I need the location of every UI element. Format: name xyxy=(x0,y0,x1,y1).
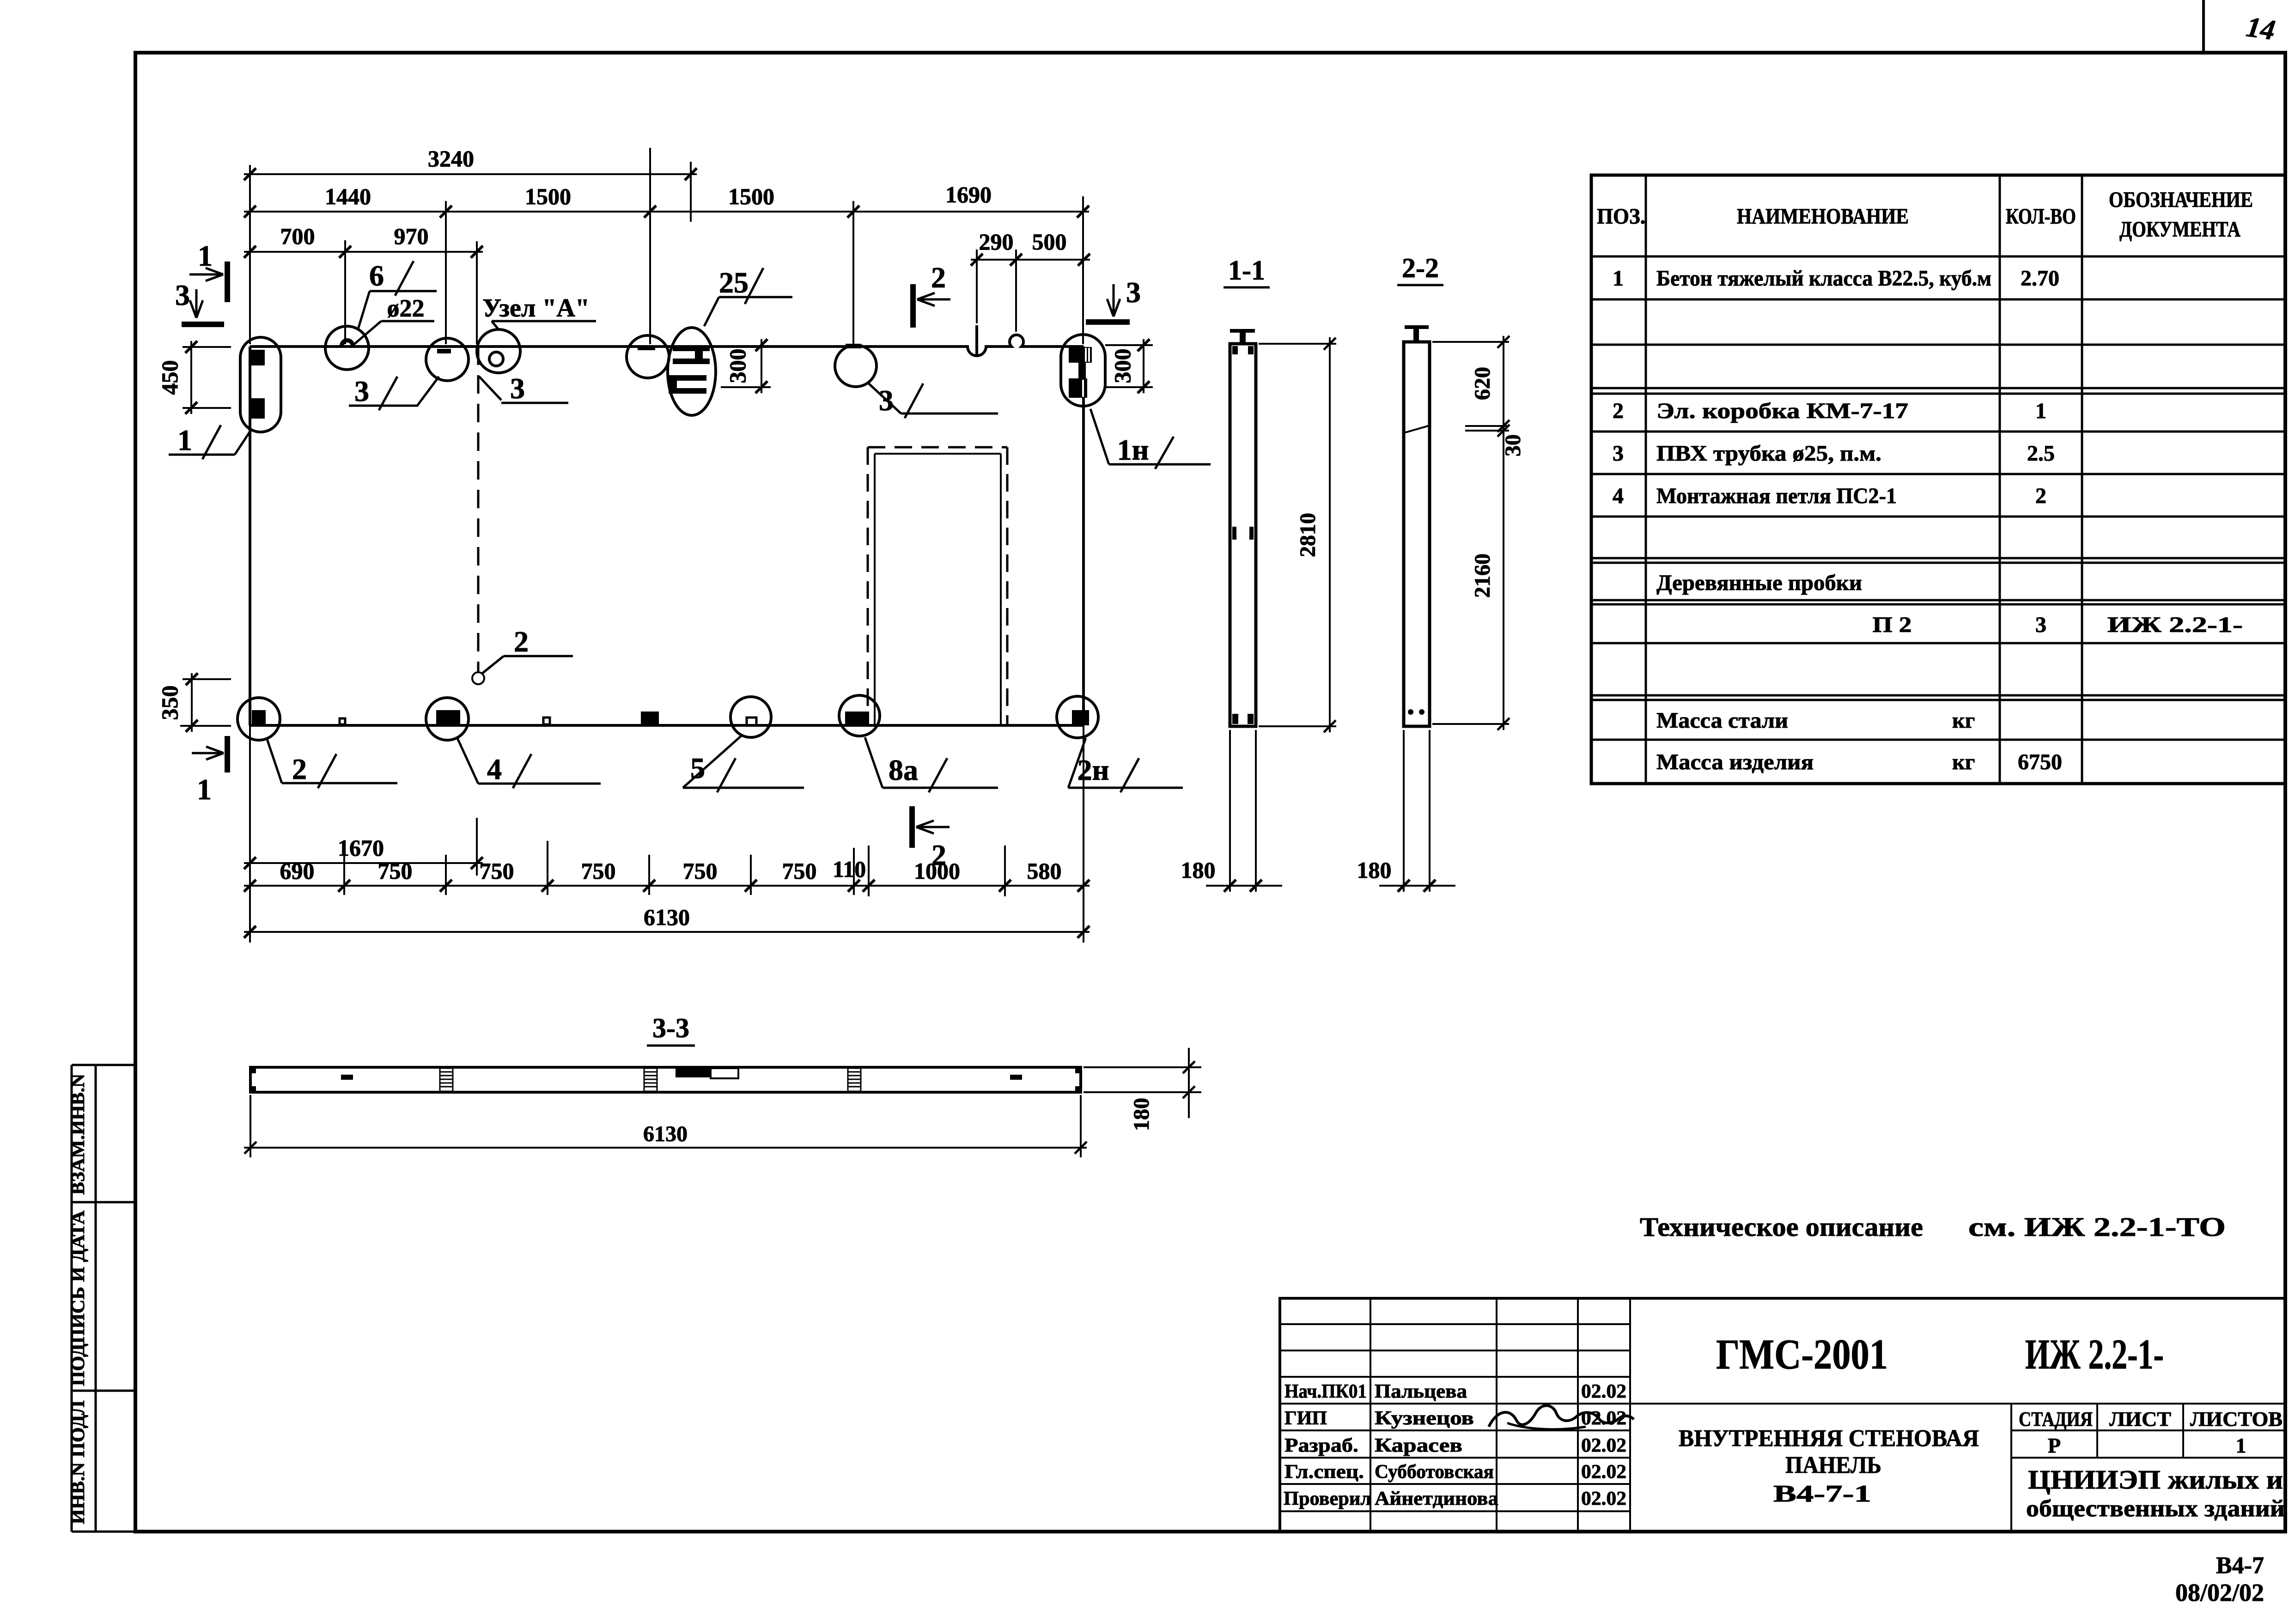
svg-text:3: 3 xyxy=(354,375,369,408)
svg-text:Проверил: Проверил xyxy=(1284,1488,1371,1509)
svg-text:3: 3 xyxy=(1613,441,1624,466)
svg-text:1: 1 xyxy=(197,773,212,806)
svg-text:1690: 1690 xyxy=(945,182,992,207)
svg-text:Айнетдинова: Айнетдинова xyxy=(1375,1488,1498,1509)
svg-text:2160: 2160 xyxy=(1470,553,1495,598)
svg-text:750: 750 xyxy=(683,858,718,884)
svg-text:970: 970 xyxy=(394,223,429,249)
svg-text:Масса изделия: Масса изделия xyxy=(1656,750,1814,774)
svg-text:В4-7-1: В4-7-1 xyxy=(1773,1481,1871,1507)
svg-text:3240: 3240 xyxy=(428,146,474,171)
svg-text:750: 750 xyxy=(782,858,817,884)
svg-text:Узел "А": Узел "А" xyxy=(482,294,590,322)
svg-text:6130: 6130 xyxy=(644,904,690,930)
svg-text:1500: 1500 xyxy=(525,183,571,209)
svg-text:180: 180 xyxy=(1181,857,1216,883)
svg-text:ДОКУМЕНТА: ДОКУМЕНТА xyxy=(2119,217,2240,242)
svg-text:5: 5 xyxy=(690,752,705,785)
svg-text:8а: 8а xyxy=(889,754,918,786)
svg-text:ВЗАМ.ИНВ.N: ВЗАМ.ИНВ.N xyxy=(67,1074,88,1195)
svg-text:ЦНИИЭП жилых и: ЦНИИЭП жилых и xyxy=(2028,1465,2283,1495)
svg-text:1670: 1670 xyxy=(338,835,384,861)
svg-text:КОЛ-ВО: КОЛ-ВО xyxy=(2006,204,2076,229)
svg-text:Разраб.: Разраб. xyxy=(1284,1435,1358,1456)
svg-text:2-2: 2-2 xyxy=(1402,253,1439,283)
svg-text:1: 1 xyxy=(2236,1434,2246,1457)
svg-text:110: 110 xyxy=(833,856,866,882)
svg-text:ЛИСТ: ЛИСТ xyxy=(2109,1408,2171,1430)
svg-text:580: 580 xyxy=(1027,858,1062,884)
svg-text:500: 500 xyxy=(1032,229,1067,255)
svg-text:2: 2 xyxy=(931,839,946,871)
svg-text:690: 690 xyxy=(280,858,315,884)
svg-text:ИЖ 2.2-1-: ИЖ 2.2-1- xyxy=(2107,613,2243,637)
svg-text:6750: 6750 xyxy=(2018,750,2062,774)
svg-text:Субботовская: Субботовская xyxy=(1375,1461,1494,1483)
svg-text:Эл. коробка КМ-7-17: Эл. коробка КМ-7-17 xyxy=(1656,399,1908,423)
svg-text:ИЖ 2.2-1-: ИЖ 2.2-1- xyxy=(2025,1331,2164,1378)
svg-text:02.02: 02.02 xyxy=(1581,1488,1626,1509)
svg-text:14: 14 xyxy=(2244,11,2277,46)
svg-text:02.02: 02.02 xyxy=(1581,1461,1626,1483)
svg-text:Техническое описание: Техническое описание xyxy=(1640,1212,1923,1242)
svg-text:Кузнецов: Кузнецов xyxy=(1375,1408,1474,1429)
svg-text:Масса стали: Масса стали xyxy=(1656,708,1788,733)
svg-text:П 2: П 2 xyxy=(1873,613,1912,637)
svg-text:Гл.спец.: Гл.спец. xyxy=(1284,1461,1364,1483)
svg-text:08/02/02: 08/02/02 xyxy=(2175,1579,2264,1606)
svg-text:1: 1 xyxy=(198,239,213,272)
svg-text:3: 3 xyxy=(879,384,894,417)
svg-text:02.02: 02.02 xyxy=(1581,1381,1626,1402)
svg-text:Нач.ПК01: Нач.ПК01 xyxy=(1284,1381,1367,1402)
svg-text:6: 6 xyxy=(369,259,384,292)
svg-text:ПАНЕЛЬ: ПАНЕЛЬ xyxy=(1785,1452,1881,1478)
svg-text:1: 1 xyxy=(2035,399,2046,423)
svg-text:Карасев: Карасев xyxy=(1375,1435,1462,1456)
svg-text:2: 2 xyxy=(514,625,529,658)
svg-text:25: 25 xyxy=(719,266,749,299)
svg-text:3: 3 xyxy=(1126,276,1141,309)
svg-text:1440: 1440 xyxy=(325,183,371,209)
svg-text:180: 180 xyxy=(1357,857,1392,883)
svg-text:3: 3 xyxy=(2035,613,2046,637)
svg-text:Деревянные пробки: Деревянные пробки xyxy=(1656,571,1862,595)
svg-text:2810: 2810 xyxy=(1296,513,1320,557)
svg-text:700: 700 xyxy=(280,223,315,249)
svg-text:2: 2 xyxy=(931,261,946,294)
svg-text:02.02: 02.02 xyxy=(1581,1435,1626,1456)
svg-text:2: 2 xyxy=(292,753,307,785)
svg-text:ГМС-2001: ГМС-2001 xyxy=(1716,1331,1888,1378)
svg-text:4: 4 xyxy=(1613,484,1624,508)
svg-text:1-1: 1-1 xyxy=(1228,255,1265,286)
svg-text:Монтажная петля ПС2-1: Монтажная петля ПС2-1 xyxy=(1656,484,1897,508)
svg-text:2н: 2н xyxy=(1077,754,1109,786)
svg-text:450: 450 xyxy=(157,360,183,395)
svg-text:1: 1 xyxy=(177,424,192,456)
svg-text:ПВХ трубка ø25, п.м.: ПВХ трубка ø25, п.м. xyxy=(1656,441,1881,466)
svg-text:ИНВ.N ПОДЛ: ИНВ.N ПОДЛ xyxy=(67,1400,88,1524)
svg-text:2.70: 2.70 xyxy=(2021,266,2059,291)
svg-text:кг: кг xyxy=(1952,750,1975,774)
svg-text:ОБОЗНАЧЕНИЕ: ОБОЗНАЧЕНИЕ xyxy=(2109,188,2253,212)
svg-text:2: 2 xyxy=(2035,484,2046,508)
svg-text:30: 30 xyxy=(1501,434,1525,456)
svg-text:НАИМЕНОВАНИЕ: НАИМЕНОВАНИЕ xyxy=(1737,204,1909,229)
svg-text:4: 4 xyxy=(487,753,502,785)
svg-text:750: 750 xyxy=(378,858,413,884)
svg-text:2.5: 2.5 xyxy=(2027,441,2055,466)
svg-text:3: 3 xyxy=(510,372,525,405)
svg-text:620: 620 xyxy=(1470,367,1495,400)
svg-text:СТАДИЯ: СТАДИЯ xyxy=(2019,1408,2093,1430)
svg-text:ГИП: ГИП xyxy=(1284,1408,1327,1429)
svg-text:180: 180 xyxy=(1129,1098,1154,1131)
svg-text:Р: Р xyxy=(2048,1434,2061,1457)
svg-text:1500: 1500 xyxy=(728,183,774,209)
svg-text:3: 3 xyxy=(175,279,190,311)
svg-text:6130: 6130 xyxy=(643,1122,688,1146)
svg-text:см. ИЖ 2.2-1-ТО: см. ИЖ 2.2-1-ТО xyxy=(1968,1212,2226,1242)
svg-text:290: 290 xyxy=(979,229,1014,255)
svg-text:ПОДПИСЬ И ДАТА: ПОДПИСЬ И ДАТА xyxy=(67,1210,88,1386)
svg-text:ø22: ø22 xyxy=(387,294,425,322)
svg-text:ВНУТРЕННЯЯ СТЕНОВАЯ: ВНУТРЕННЯЯ СТЕНОВАЯ xyxy=(1679,1425,1979,1452)
svg-text:2: 2 xyxy=(1613,399,1624,423)
svg-text:Пальцева: Пальцева xyxy=(1375,1381,1467,1402)
svg-text:кг: кг xyxy=(1952,708,1975,733)
svg-text:300: 300 xyxy=(724,349,750,383)
svg-text:В4-7: В4-7 xyxy=(2216,1552,2264,1579)
svg-text:750: 750 xyxy=(480,858,514,884)
svg-text:Бетон тяжелый класса В22.5, ку: Бетон тяжелый класса В22.5, куб.м xyxy=(1656,266,1991,291)
svg-text:300: 300 xyxy=(1109,349,1135,383)
svg-text:ПОЗ.: ПОЗ. xyxy=(1597,204,1645,229)
svg-text:750: 750 xyxy=(581,858,616,884)
svg-text:1н: 1н xyxy=(1117,433,1149,466)
svg-text:1: 1 xyxy=(1613,266,1624,291)
svg-text:ЛИСТОВ: ЛИСТОВ xyxy=(2190,1408,2283,1430)
svg-text:общественных зданий: общественных зданий xyxy=(2026,1496,2285,1522)
svg-text:3-3: 3-3 xyxy=(652,1013,689,1043)
svg-text:350: 350 xyxy=(157,686,183,720)
